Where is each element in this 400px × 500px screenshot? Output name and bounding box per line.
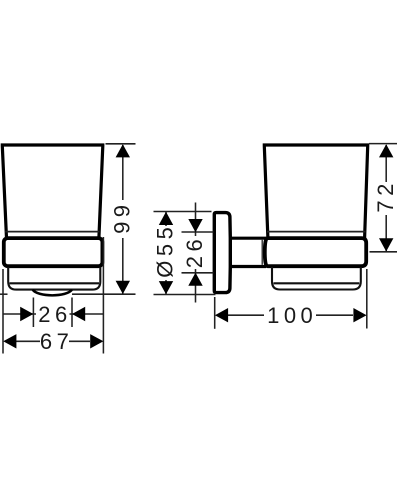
dimension 26 (glass foot): arrowheads (20, 307, 85, 321)
left view: base datum line (0, 293, 136, 295)
dimension Ø55: label (153, 223, 178, 278)
dimension 99: label (110, 200, 135, 233)
svg-text:26: 26 (38, 302, 71, 327)
left view: holder ring body (4, 238, 103, 266)
right view: holder ring body (side) (265, 238, 366, 266)
dimension 67: extension lines (3, 237, 103, 354)
dimension 100: extension lines (215, 269, 367, 329)
right view: holder tray (side) (272, 267, 361, 290)
dimension Ø55: extension lines (154, 212, 216, 295)
dimension 72: dimension line (385, 145, 387, 251)
right view: glass tumbler (side) (264, 145, 367, 238)
svg-text:67: 67 (40, 329, 73, 354)
dimension 72: arrowheads (379, 144, 393, 251)
left view: glass tumbler (front) (2, 145, 103, 238)
dimension 72: label (373, 179, 398, 212)
dimension 100: label (267, 303, 317, 328)
left view: glass foot bump (33, 290, 72, 296)
svg-text:Ø55: Ø55 (153, 223, 178, 278)
left view: holder tray (cross-section lip) (8, 267, 100, 290)
left view: holder inner rim line (seen through glass) (5, 231, 99, 233)
svg-text:99: 99 (110, 200, 135, 233)
svg-text:26: 26 (182, 235, 207, 268)
dimension 26 (glass foot): dimension line (3, 313, 103, 315)
dimension 99: dimension line (122, 145, 124, 294)
right view: arm collar line (261, 240, 263, 265)
dimension 100: dimension line (228, 314, 353, 316)
dimension Ø55: dimension line (165, 212, 167, 294)
svg-text:100: 100 (267, 303, 317, 328)
dimension 26 (arm): arrowheads (188, 219, 202, 286)
right view: mounting arm (230, 238, 266, 266)
dimension 26 (arm): dimension line (195, 203, 197, 303)
dimension 67: arrowheads (3, 334, 103, 348)
right view: wall plate (side profile) (214, 213, 230, 293)
dimension 26 (arm): extension lines (182, 232, 214, 273)
dimension Ø55: arrowheads (159, 212, 173, 294)
dimension 26 (glass foot): label (38, 302, 71, 327)
dimension 26 (glass foot): extension lines (33, 298, 72, 328)
svg-text:72: 72 (373, 179, 398, 212)
dimension 100: arrowheads (215, 308, 367, 322)
right view: holder inner rim line (267, 231, 366, 233)
dimension 67: label (40, 329, 73, 354)
dimension 26 (arm): label (182, 235, 207, 268)
dimension 99: arrowheads (116, 144, 130, 294)
dimension 72: extension lines (369, 144, 397, 252)
dimension 67: dimension line (16, 340, 90, 342)
dimension 99: extension line top (106, 143, 136, 145)
